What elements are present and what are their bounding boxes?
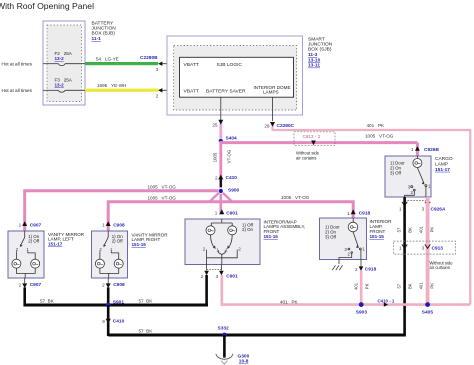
vanity mirror lamp left box (8, 231, 44, 278)
interior map bulb left (206, 226, 215, 235)
svg-text:C2280B: C2280B (140, 55, 158, 61)
svg-text:LAMP: LAMP (435, 161, 448, 167)
vanity right switch (99, 231, 123, 259)
svg-text:151-15: 151-15 (132, 242, 147, 247)
svg-text:2: 2 (355, 267, 358, 272)
svg-text:PK: PK (430, 283, 435, 289)
wire 57 BK vanity left (23, 287, 26, 306)
svg-text:2) On: 2) On (242, 227, 254, 232)
interior map internal feed (211, 219, 232, 226)
SJB exit stub interior dome lamps (272, 97, 274, 121)
SJB internal labels (184, 62, 291, 94)
svg-text:BOX (SJB): BOX (SJB) (308, 47, 332, 53)
svg-text:LAMPS: LAMPS (263, 90, 279, 95)
connector C901 top (215, 209, 238, 216)
black bus 57 BK upper (24, 299, 209, 306)
svg-text:1005: 1005 (212, 152, 217, 162)
splice S900 (218, 187, 239, 193)
svg-text:1: 1 (347, 211, 350, 216)
svg-text:BATTERY: BATTERY (92, 21, 114, 27)
connector C908 top (102, 221, 125, 228)
vanity right bulb 1 (95, 259, 104, 268)
svg-text:VT-OG: VT-OG (226, 149, 231, 163)
svg-text:1005 VT-OG: 1005 VT-OG (148, 185, 177, 190)
svg-text:401: 401 (353, 282, 358, 290)
svg-text:3: 3 (216, 274, 219, 279)
connector C918 top (347, 209, 370, 216)
svg-text:401 PK: 401 PK (367, 123, 386, 128)
battery junction box BJB outline (43, 21, 85, 105)
svg-text:1: 1 (102, 222, 105, 227)
vanity right label (132, 233, 169, 247)
wire 401 PK top bus (273, 123, 471, 305)
svg-text:401: 401 (419, 282, 424, 290)
ground G300 (216, 353, 250, 364)
svg-text:Hot at all times: Hot at all times (2, 61, 33, 66)
splice S405 (422, 302, 434, 315)
fuse F3 (43, 77, 85, 92)
connector C2280B pin 3 (140, 55, 180, 72)
interior map switch blades (203, 235, 242, 265)
svg-text:CARGO: CARGO (435, 156, 453, 162)
svg-text:401: 401 (419, 225, 424, 233)
vanity left bulb 1 (12, 259, 21, 268)
vanity left switch (16, 231, 40, 259)
interior front label (370, 219, 393, 239)
svg-text:10-8: 10-8 (239, 359, 249, 365)
vanity left bulb returns (16, 268, 35, 278)
cargo lamp internal text (390, 161, 405, 176)
wire S901 to C410 (107, 305, 110, 336)
SJB side label (308, 36, 333, 68)
rotated labels 401 PK s903 (353, 282, 369, 290)
cargo lamp switch (405, 168, 431, 197)
svg-text:Hot at all times: Hot at all times (2, 88, 33, 93)
svg-text:1005 VT-OG: 1005 VT-OG (148, 196, 177, 201)
svg-text:S901: S901 (113, 299, 125, 305)
cargo lamp label (435, 156, 453, 173)
ground chassis interior front (332, 260, 342, 271)
vanity mirror lamp right box (92, 231, 128, 278)
svg-text:1: 1 (19, 222, 22, 227)
svg-text:C926A: C926A (431, 206, 446, 212)
svg-text:1: 1 (215, 211, 218, 216)
svg-text:401 PK: 401 PK (280, 299, 299, 304)
connector C2280C pin 28 (264, 122, 294, 129)
connector C907 bottom (19, 278, 42, 288)
svg-text:57 BK: 57 BK (139, 299, 154, 304)
wire 1695 YE-WH (85, 83, 158, 92)
connector C907 top (19, 221, 42, 228)
connector C908 bottom (102, 278, 125, 288)
svg-text:BK: BK (407, 283, 412, 289)
svg-text:13-2: 13-2 (55, 56, 65, 61)
wire 1005 VT-OG S900 to vanity left (25, 185, 221, 232)
splice S404 (218, 136, 237, 144)
rotated labels lower (397, 282, 435, 290)
wire 401 PK C918 to S903 (360, 271, 363, 305)
vanity right bulb returns (100, 268, 119, 278)
wire 54 LG-YE (85, 57, 158, 65)
svg-text:C913: C913 (432, 245, 444, 251)
svg-text:57: 57 (397, 283, 402, 288)
connector C410 pin 9 (102, 319, 124, 325)
wire 57 BK vanity right (107, 287, 110, 306)
connector C2280B pin 2 (156, 88, 180, 98)
interior map switch text (242, 222, 254, 232)
svg-text:13-10: 13-10 (308, 57, 321, 63)
svg-text:C901: C901 (226, 210, 238, 216)
connector C926A (399, 200, 446, 212)
svg-text:PK: PK (430, 227, 435, 233)
svg-text:C918: C918 (359, 211, 371, 217)
wire PK pin28 drop (271, 126, 273, 131)
connector C901 bottom (201, 265, 238, 280)
svg-text:13-2: 13-2 (55, 83, 65, 88)
svg-text:S332: S332 (218, 325, 230, 331)
svg-text:28: 28 (264, 123, 270, 128)
svg-text:11-3: 11-3 (308, 52, 318, 58)
svg-text:2) Off: 2) Off (112, 239, 124, 244)
splice S903 (356, 302, 368, 315)
svg-text:air curtains: air curtains (296, 155, 316, 160)
svg-text:C901: C901 (226, 274, 238, 280)
wire 1005 VT-OG to cargo lamp (220, 133, 418, 156)
svg-text:JUNCTION: JUNCTION (308, 41, 333, 47)
svg-text:1005 VT-OG: 1005 VT-OG (281, 195, 310, 200)
svg-text:SJB LOGIC: SJB LOGIC (217, 62, 243, 68)
svg-text:With Roof Opening Panel: With Roof Opening Panel (0, 1, 94, 11)
svg-text:SMART: SMART (308, 36, 325, 42)
svg-text:9: 9 (102, 319, 105, 324)
connector C918 bottom (355, 260, 377, 273)
svg-text:2: 2 (102, 283, 105, 288)
svg-text:C908: C908 (113, 282, 125, 288)
svg-text:BOX (BJB): BOX (BJB) (92, 31, 116, 37)
svg-text:2: 2 (215, 175, 218, 180)
fuse F2 (43, 51, 85, 66)
svg-text:C913 - 2: C913 - 2 (303, 134, 321, 139)
svg-text:air curtains: air curtains (430, 265, 450, 270)
smart junction box SJB outline (167, 36, 303, 115)
svg-text:3) Off: 3) Off (390, 171, 402, 176)
svg-text:1005 VT-OG: 1005 VT-OG (365, 133, 394, 138)
svg-text:57 BK: 57 BK (139, 329, 154, 334)
connector C926B (411, 146, 440, 153)
svg-text:C410: C410 (113, 319, 125, 325)
svg-text:PK: PK (364, 283, 369, 289)
rotated labels upper (397, 225, 435, 233)
in-line connector C913 right (394, 241, 456, 270)
interior front internal text (325, 224, 340, 239)
svg-text:151-17: 151-17 (435, 167, 450, 173)
cargo lamp box (385, 156, 431, 197)
svg-text:S405: S405 (422, 309, 434, 315)
in-line connector C913-2 (294, 132, 335, 161)
svg-text:2: 2 (19, 283, 22, 288)
interior map bulb right (228, 226, 237, 235)
svg-text:G300: G300 (238, 353, 250, 359)
splice S332 (218, 325, 230, 337)
splice S900 branch diagonals (210, 191, 233, 215)
vanity left label (48, 232, 85, 246)
svg-text:1695 YE-WH: 1695 YE-WH (97, 83, 126, 88)
wire S332 to ground (223, 335, 226, 358)
svg-text:C908: C908 (113, 222, 125, 228)
wire 401 PK from cargo lamp (426, 197, 430, 305)
svg-text:JUNCTION: JUNCTION (92, 26, 117, 32)
splice S901 (106, 299, 125, 307)
svg-text:57 BK: 57 BK (40, 299, 55, 304)
svg-text:VBATT: VBATT (184, 62, 199, 68)
svg-text:151-15: 151-15 (370, 234, 385, 239)
svg-text:C2280C: C2280C (277, 123, 295, 129)
wire VT-OG pin25 drop (219, 124, 222, 142)
svg-text:25: 25 (212, 122, 218, 127)
interior front switch (339, 232, 365, 260)
svg-text:S900: S900 (228, 187, 240, 193)
svg-text:C918: C918 (365, 266, 377, 272)
svg-text:1: 1 (399, 245, 402, 250)
svg-text:11-1: 11-1 (92, 36, 102, 42)
svg-text:S903: S903 (356, 309, 368, 315)
svg-text:151-17: 151-17 (48, 241, 63, 246)
svg-text:3: 3 (422, 245, 425, 250)
cargo lamp bulb (413, 156, 422, 168)
interior map label (264, 219, 306, 239)
wire 57 BK from interior map (205, 275, 208, 305)
svg-text:C907: C907 (30, 282, 42, 288)
wire 1005 VT-OG lower branch (108, 195, 353, 231)
svg-text:151-15: 151-15 (264, 234, 279, 239)
connector C410-1 on bus (378, 298, 395, 307)
svg-text:3: 3 (156, 67, 159, 72)
svg-text:S404: S404 (226, 136, 238, 142)
svg-text:2) Off: 2) Off (28, 239, 40, 244)
SJB exit stub battery saver (220, 97, 222, 120)
BJB label (92, 21, 117, 43)
vanity left bulb 2 (31, 259, 40, 268)
svg-text:1: 1 (411, 147, 414, 152)
svg-text:1: 1 (399, 206, 402, 211)
interior front bulb (348, 218, 358, 232)
connector C410 pin 2 (215, 175, 237, 187)
svg-text:57: 57 (397, 227, 402, 232)
svg-text:54 LG-YE: 54 LG-YE (96, 57, 119, 62)
svg-text:3) Off: 3) Off (325, 234, 337, 239)
svg-text:BATTERY SAVER: BATTERY SAVER (206, 89, 246, 95)
interior lamp front box (320, 218, 367, 260)
svg-text:13-11: 13-11 (308, 63, 320, 69)
wire 57 BK from cargo lamp (403, 197, 406, 335)
vanity right bulb 2 (114, 259, 123, 268)
rotated labels 1005 VT-OG (212, 149, 231, 163)
svg-text:3: 3 (422, 206, 425, 211)
connector C2280C pin 25 (212, 120, 223, 128)
svg-text:BK: BK (407, 227, 412, 233)
svg-text:2: 2 (156, 93, 159, 98)
black bus 57 BK lower (108, 329, 406, 336)
svg-text:C410 - 1: C410 - 1 (378, 298, 395, 303)
svg-text:VBATT: VBATT (184, 89, 199, 95)
svg-text:C907: C907 (30, 222, 42, 228)
svg-text:C410: C410 (226, 175, 238, 181)
svg-text:2: 2 (201, 274, 204, 279)
wire VT-OG S404 to S900 (219, 141, 222, 191)
interior map lamps assembly box (185, 219, 260, 265)
wire 401 PK from interior map (222, 275, 470, 305)
svg-text:C926B: C926B (424, 147, 439, 153)
